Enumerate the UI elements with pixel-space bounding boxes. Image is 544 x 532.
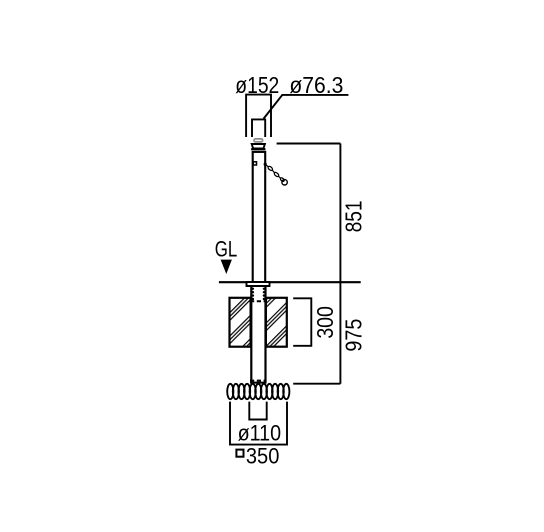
chain wire 3 xyxy=(279,176,281,178)
chain wire 1 xyxy=(265,164,268,166)
square symbol for 350 xyxy=(236,450,243,457)
dimension bracket Ø110 inner xyxy=(249,402,266,420)
chain end ring xyxy=(282,180,287,185)
gravel coil row xyxy=(227,384,289,399)
chain link 1 xyxy=(267,166,273,172)
svg-text:ø110: ø110 xyxy=(238,420,282,445)
chain link 2 xyxy=(274,172,280,178)
svg-text:300: 300 xyxy=(312,306,338,339)
cap rim xyxy=(251,148,265,150)
cap knob xyxy=(254,139,263,142)
dimension bracket Ø76.3 xyxy=(252,119,265,137)
svg-text:GL: GL xyxy=(215,236,238,261)
svg-text:350: 350 xyxy=(246,443,280,468)
sleeve thread right xyxy=(263,288,265,301)
dimension line 851/975 top xyxy=(277,143,341,145)
sleeve thread left xyxy=(252,288,254,301)
chain link 3 xyxy=(280,177,285,182)
foundation left block xyxy=(230,298,251,347)
cap body xyxy=(252,144,265,148)
GL marker triangle xyxy=(221,260,232,274)
post body xyxy=(253,152,266,282)
dimension bracket Ø152 xyxy=(246,95,271,137)
svg-text:975: 975 xyxy=(340,319,366,352)
chain wire 2 xyxy=(272,170,274,172)
foundation right block xyxy=(266,298,287,347)
chain anchor right xyxy=(264,163,267,166)
buried pipe walls xyxy=(251,286,265,382)
pipe bottom edge xyxy=(250,382,267,384)
hidden line pipe bottom xyxy=(250,380,267,382)
dimension bracket Ø110 outer xyxy=(230,402,287,445)
leader line Ø76.3 xyxy=(264,95,349,119)
ground line xyxy=(219,281,361,283)
dimension line 851/975 vertical xyxy=(339,144,341,384)
hidden line sleeve top xyxy=(250,300,267,302)
svg-text:851: 851 xyxy=(340,200,366,232)
sleeve collar xyxy=(247,282,270,286)
dimension line 975 bottom xyxy=(293,383,340,385)
dimension bracket 300 xyxy=(293,298,311,346)
chain hook left xyxy=(253,162,256,165)
